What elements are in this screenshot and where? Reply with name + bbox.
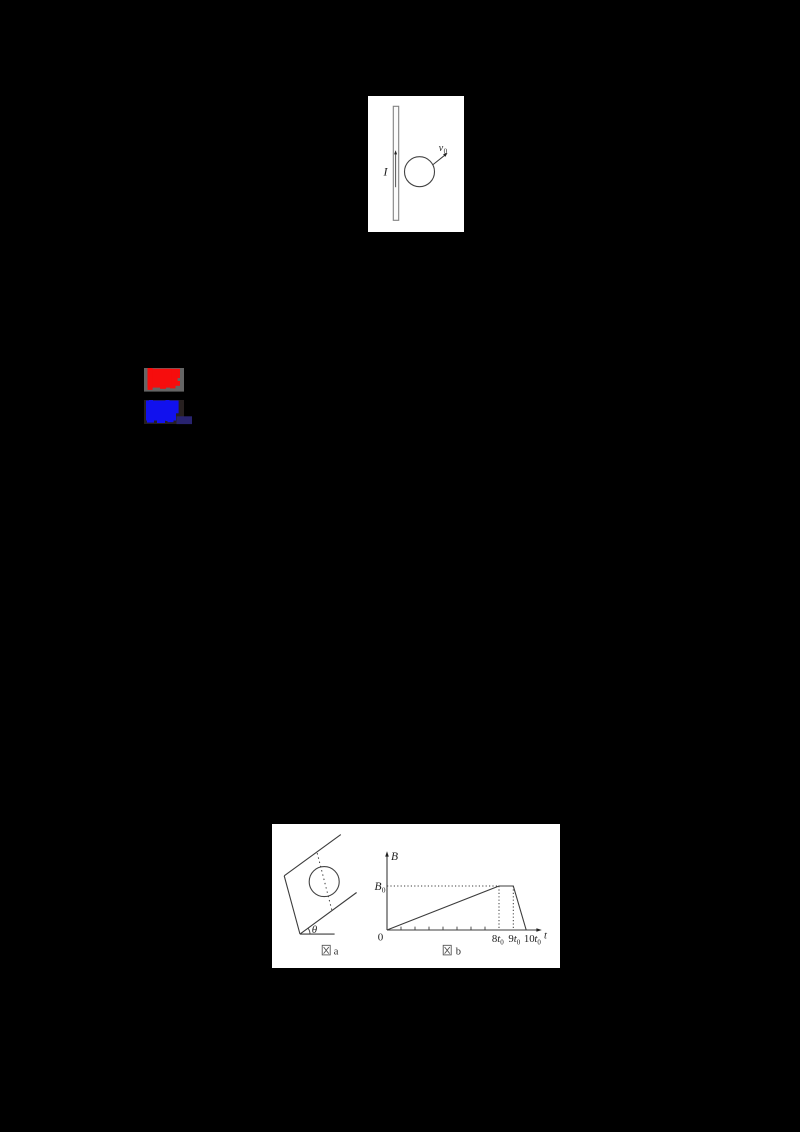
caption: tu a xyxy=(322,945,330,955)
B(t) curve: rise, plateau, fall xyxy=(387,886,526,930)
svg-text:a: a xyxy=(334,946,339,957)
loop on incline (circle) xyxy=(309,867,339,897)
dashed axis line through loop xyxy=(317,853,332,910)
svg-text:t: t xyxy=(544,930,548,941)
incline top edge xyxy=(284,835,341,876)
svg-text:b: b xyxy=(456,946,461,957)
svg-text:0: 0 xyxy=(517,938,521,946)
dotted vertical at 8t0 xyxy=(498,886,500,930)
svg-text:0: 0 xyxy=(444,147,448,155)
svg-text:B: B xyxy=(375,881,382,893)
incline bottom edge xyxy=(300,893,357,935)
svg-text:0: 0 xyxy=(500,938,504,946)
svg-text:10: 10 xyxy=(524,933,535,945)
dotted level line at B0 xyxy=(387,885,513,887)
figure box: straight wire with current I and circular loop moving with v0 xyxy=(368,96,464,232)
dark highlight background xyxy=(144,400,184,424)
svg-text:0: 0 xyxy=(382,886,386,895)
wire (vertical conductor rod) xyxy=(393,106,398,220)
t axis (horizontal) xyxy=(387,929,539,931)
velocity arrow v0 xyxy=(433,155,445,164)
svg-text:B: B xyxy=(391,851,398,863)
svg-text:I: I xyxy=(383,165,389,179)
B axis (vertical) xyxy=(386,854,388,931)
dotted vertical at 9t0 xyxy=(512,886,514,930)
red bold glyph mass xyxy=(148,369,180,386)
angle arc theta xyxy=(308,928,310,934)
conducting loop (circle) xyxy=(405,157,435,187)
current arrow (inside wire, pointing up) xyxy=(395,153,397,187)
caption: tu b xyxy=(443,945,451,955)
svg-text:θ: θ xyxy=(312,924,318,936)
ground horizontal line xyxy=(300,933,335,935)
gray highlight background xyxy=(144,368,184,392)
incline left edge xyxy=(284,876,300,934)
svg-text:0: 0 xyxy=(378,931,384,943)
figure box: incline (tu a) and B-t graph (tu b) xyxy=(272,824,560,968)
navy sub-block xyxy=(177,416,193,424)
blue highlighted tag (analysis label) xyxy=(144,400,194,425)
blue bold glyph mass xyxy=(146,401,179,414)
red highlighted tag (answer label) xyxy=(144,368,184,392)
svg-text:0: 0 xyxy=(537,938,541,946)
t axis tick marks xyxy=(401,927,485,930)
